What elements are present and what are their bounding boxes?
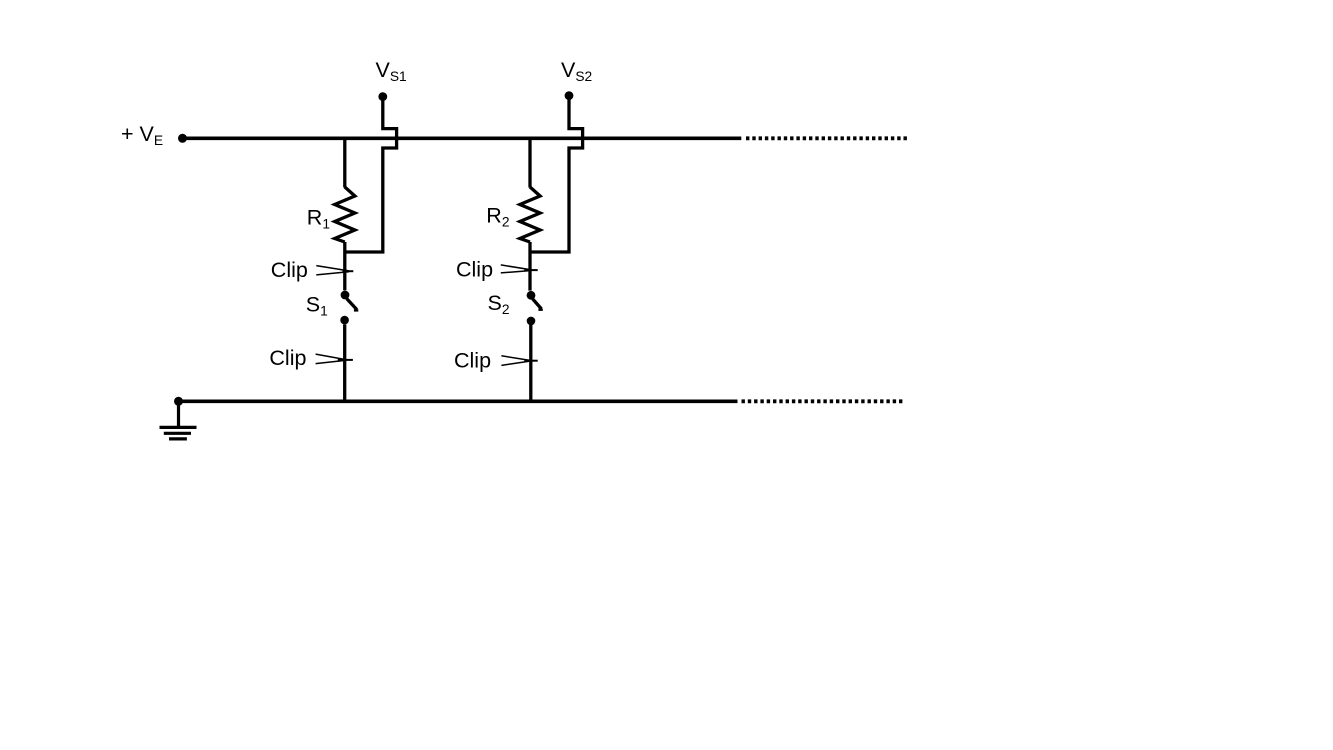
svg-text:Clip: Clip [269, 346, 306, 370]
svg-text:Clip: Clip [456, 257, 493, 281]
svg-text:Clip: Clip [454, 348, 491, 372]
svg-text:Clip: Clip [271, 258, 308, 282]
